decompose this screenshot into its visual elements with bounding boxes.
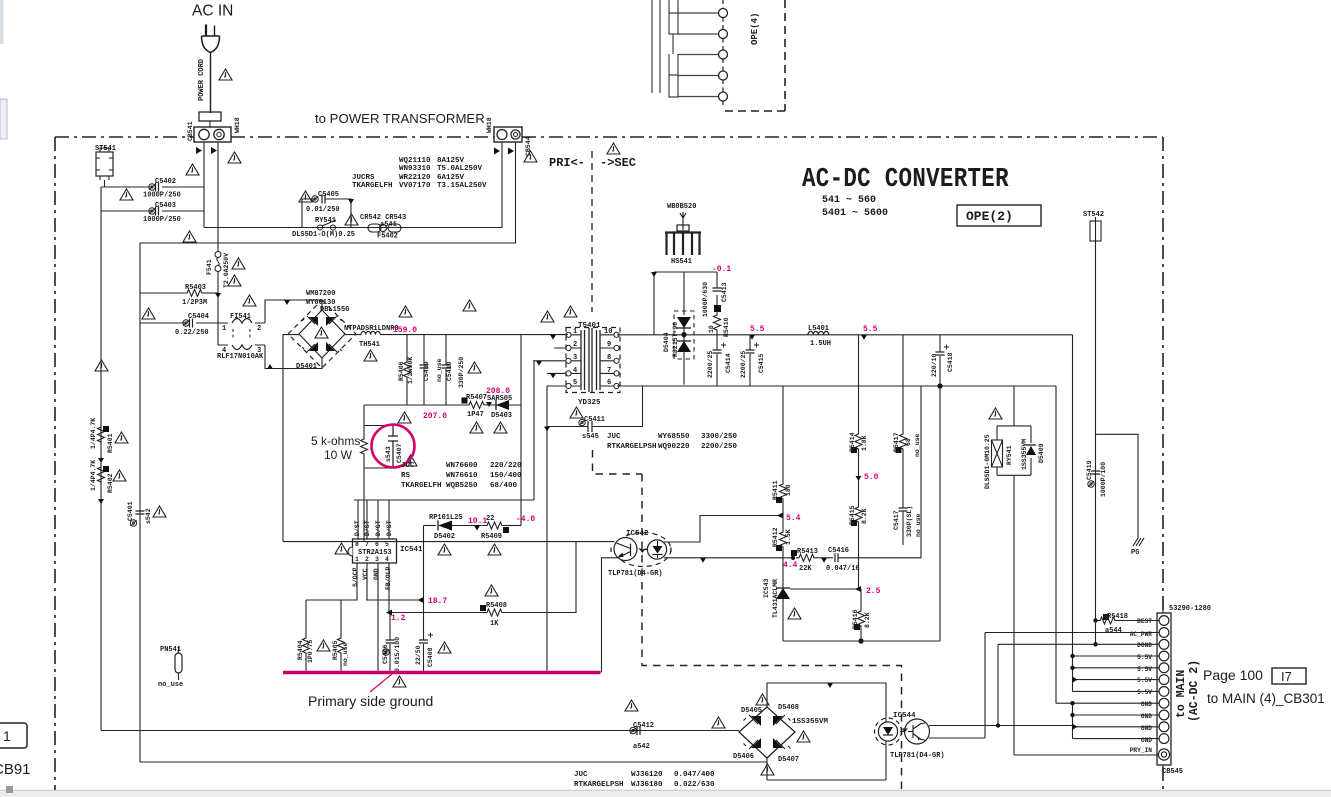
resistor R5412 xyxy=(782,511,784,529)
wire CB541 left pin down xyxy=(203,142,205,228)
fuse table xyxy=(352,157,487,190)
svg-text:1.5K: 1.5K xyxy=(785,529,792,545)
VCC sense line xyxy=(366,599,424,601)
svg-text:C5415: C5415 xyxy=(758,353,765,373)
svg-text:RP101L2S: RP101L2S xyxy=(429,514,463,522)
svg-text:GND: GND xyxy=(1141,701,1152,708)
warning symbol xyxy=(186,164,199,175)
svg-text:no_use: no_use xyxy=(914,433,921,457)
svg-text:68/400: 68/400 xyxy=(490,482,518,490)
svg-text:330P(SL): 330P(SL) xyxy=(906,506,913,537)
svg-text:OPE(2): OPE(2) xyxy=(966,209,1013,224)
svg-text:RTKARGELPSH: RTKARGELPSH xyxy=(574,781,624,789)
svg-text:3: 3 xyxy=(375,556,379,563)
svg-text:R5407: R5407 xyxy=(466,394,487,402)
line filter FI541 xyxy=(218,323,265,345)
svg-text:(AC-DC 2): (AC-DC 2) xyxy=(1188,660,1201,722)
svg-text:R5418: R5418 xyxy=(1107,613,1128,621)
resistor R5414 xyxy=(858,335,860,431)
primary ground bus magenta xyxy=(283,671,601,674)
svg-text:WM87200: WM87200 xyxy=(306,290,335,298)
opto emitter to ground xyxy=(602,558,619,673)
svg-text:D5406: D5406 xyxy=(733,753,754,761)
wire choke to bridge top xyxy=(265,300,322,323)
svg-text:C5414: C5414 xyxy=(725,353,732,373)
svg-text:DLS5D1-O(M)0.25: DLS5D1-O(M)0.25 xyxy=(292,231,355,239)
svg-text:GND: GND xyxy=(373,568,380,580)
startup feed vertical xyxy=(520,335,522,526)
svg-text:3: 3 xyxy=(573,354,577,362)
relay coil RY541 xyxy=(989,408,1002,419)
net PRY_IN xyxy=(1014,754,1159,756)
bleeder resistor 5k xyxy=(363,405,365,436)
svg-text:R5415: R5415 xyxy=(849,505,856,525)
title AC-DC CONVERTER xyxy=(802,166,1009,195)
resistor R5411 xyxy=(782,386,784,481)
svg-text:CB541: CB541 xyxy=(187,121,194,141)
connector CB544 xyxy=(494,127,522,142)
svg-text:C5408: C5408 xyxy=(427,647,434,667)
svg-text:T2.0A250V: T2.0A250V xyxy=(223,253,230,288)
svg-text:5.5V: 5.5V xyxy=(1137,654,1152,661)
svg-text:JUC: JUC xyxy=(607,433,621,441)
svg-text:R5401: R5401 xyxy=(107,433,114,453)
wire choke to bridge bottom xyxy=(265,345,322,369)
svg-text:D5407: D5407 xyxy=(778,756,799,764)
svg-text:R5416: R5416 xyxy=(852,609,859,629)
svg-text:10.1: 10.1 xyxy=(468,517,487,526)
svg-text:8.2K: 8.2K xyxy=(861,508,868,524)
primary pin stubs xyxy=(533,348,566,386)
resistor R5405 xyxy=(340,600,342,635)
svg-text:6A125V: 6A125V xyxy=(437,174,465,182)
inductor L5401 xyxy=(808,331,829,334)
svg-text:R5406: R5406 xyxy=(398,361,405,381)
resistor R5406 xyxy=(406,335,408,359)
svg-text:5.4: 5.4 xyxy=(786,514,801,523)
svg-text:C5404: C5404 xyxy=(188,313,209,321)
svg-text:1000P/250: 1000P/250 xyxy=(143,216,181,224)
svg-text:D5403: D5403 xyxy=(491,412,512,420)
svg-text:no_use: no_use xyxy=(342,642,349,666)
svg-text:no_use: no_use xyxy=(158,681,183,689)
svg-text:CB544: CB544 xyxy=(525,136,532,156)
svg-text:-4.0: -4.0 xyxy=(516,515,535,524)
resistor R5401 xyxy=(98,424,105,445)
svg-text:DGND: DGND xyxy=(1137,642,1152,649)
svg-text:PRY_IN: PRY_IN xyxy=(1130,747,1153,754)
svg-text:R5404: R5404 xyxy=(297,640,304,660)
IC541 pin wires xyxy=(306,563,357,600)
svg-text:5.0: 5.0 xyxy=(864,473,879,482)
svg-text:5.5: 5.5 xyxy=(750,325,765,334)
svg-text:D/ST: D/ST xyxy=(354,520,361,536)
diode D5403 xyxy=(487,404,521,406)
svg-text:R5403: R5403 xyxy=(185,284,206,292)
svg-text:5: 5 xyxy=(573,379,577,387)
svg-text:HS541: HS541 xyxy=(671,258,692,266)
svg-text:AC IN: AC IN xyxy=(192,3,233,20)
svg-text:4: 4 xyxy=(573,367,577,375)
svg-text:R5402: R5402 xyxy=(107,473,114,493)
svg-text:WQB5250: WQB5250 xyxy=(446,482,478,490)
warning symbol xyxy=(219,69,232,80)
svg-text:2200/25: 2200/25 xyxy=(707,351,714,378)
svg-text:1: 1 xyxy=(573,328,577,336)
resistor R5415 xyxy=(855,504,862,525)
capacitor C5406 xyxy=(389,613,391,673)
svg-text:C5406: C5406 xyxy=(382,644,389,664)
parts table (5k) xyxy=(401,462,522,490)
svg-text:R5411: R5411 xyxy=(772,480,779,500)
svg-text:WQ21110: WQ21110 xyxy=(399,157,431,165)
warning symbol xyxy=(524,151,537,162)
svg-text:C5409: C5409 xyxy=(423,361,430,381)
bridge top feed xyxy=(767,683,886,722)
svg-text:1/2P3M: 1/2P3M xyxy=(182,299,207,307)
svg-text:180: 180 xyxy=(785,484,792,496)
svg-text:D5402: D5402 xyxy=(434,533,455,541)
svg-text:DEST: DEST xyxy=(1137,618,1152,625)
svg-text:R5417: R5417 xyxy=(893,432,900,452)
svg-text:WQ90220: WQ90220 xyxy=(658,443,690,451)
svg-text:R5405: R5405 xyxy=(332,640,339,660)
bottom long bus A xyxy=(101,730,739,732)
isolation barrier dashed xyxy=(593,450,902,790)
capacitor C5415 xyxy=(749,335,751,386)
svg-text:s542: s542 xyxy=(145,508,152,524)
resistor R5410 xyxy=(714,312,721,333)
svg-text:2: 2 xyxy=(257,325,261,333)
secondary 5.5V rail xyxy=(617,334,1073,336)
IC U541 STR2A153 xyxy=(353,539,397,563)
svg-text:C5412: C5412 xyxy=(633,722,654,730)
capacitor C5403 xyxy=(101,210,204,212)
svg-text:C5416: C5416 xyxy=(828,547,849,555)
resistor R5417 no_use xyxy=(902,335,904,431)
capacitor C5405 snubber xyxy=(302,199,351,228)
svg-text:4.4: 4.4 xyxy=(783,561,798,570)
svg-text:WN76600: WN76600 xyxy=(446,462,478,470)
svg-text:F5402: F5402 xyxy=(377,233,398,241)
svg-text:150/400: 150/400 xyxy=(490,472,522,480)
warning symbol xyxy=(228,152,241,163)
svg-text:D5401: D5401 xyxy=(296,363,317,371)
svg-text:Primary side ground: Primary side ground xyxy=(308,693,433,709)
capacitor C5413 xyxy=(716,272,718,305)
resistor R5404 xyxy=(305,600,307,635)
svg-text:TLP781(D4-GR): TLP781(D4-GR) xyxy=(890,752,945,760)
svg-text:D/ST: D/ST xyxy=(364,520,371,536)
svg-text:R5414: R5414 xyxy=(849,432,856,452)
opto LED anode line 5.4 xyxy=(664,516,783,543)
svg-text:1.2: 1.2 xyxy=(391,614,406,623)
svg-text:s543: s543 xyxy=(385,446,392,462)
net DGND feed xyxy=(997,644,999,725)
svg-text:to MAIN: to MAIN xyxy=(1175,670,1188,718)
capacitor C5402 xyxy=(101,186,204,188)
svg-text:WR22120: WR22120 xyxy=(399,174,431,182)
resistor R5413 xyxy=(791,556,795,560)
callout line xyxy=(370,674,392,692)
svg-text:D5405: D5405 xyxy=(741,707,762,715)
svg-text:2: 2 xyxy=(573,341,577,349)
svg-text:330P/250: 330P/250 xyxy=(458,357,465,388)
svg-text:T5.0AL250V: T5.0AL250V xyxy=(437,165,483,173)
feedback box verticals xyxy=(939,386,941,641)
bridge rectifier D5405-D5408 xyxy=(739,707,795,758)
svg-text:1SS355VM: 1SS355VM xyxy=(792,718,829,726)
svg-text:159.0: 159.0 xyxy=(393,326,417,335)
svg-text:3300/250: 3300/250 xyxy=(701,433,738,441)
capacitor C5419 xyxy=(1096,434,1139,538)
svg-text:POWER CORD: POWER CORD xyxy=(198,59,206,101)
svg-text:RLF17N010AK: RLF17N010AK xyxy=(217,353,264,361)
svg-text:C5405: C5405 xyxy=(318,191,339,199)
svg-text:WJ36120: WJ36120 xyxy=(631,771,663,779)
svg-text:0.022/630: 0.022/630 xyxy=(674,781,715,789)
svg-text:5.5: 5.5 xyxy=(863,325,878,334)
svg-text:R5408: R5408 xyxy=(486,602,507,610)
svg-text:C5419: C5419 xyxy=(1086,460,1093,480)
svg-text:Page 100: Page 100 xyxy=(1203,667,1263,683)
svg-text:I7: I7 xyxy=(1281,669,1292,684)
svg-text:RS: RS xyxy=(401,472,411,480)
diode D5409 xyxy=(1026,446,1036,455)
svg-text:18.7: 18.7 xyxy=(428,597,447,606)
node 207 line xyxy=(364,404,466,406)
svg-text:1000P/250: 1000P/250 xyxy=(143,192,181,200)
isolation dashed line upper xyxy=(591,151,593,312)
svg-text:a542: a542 xyxy=(633,743,650,751)
svg-text:s545: s545 xyxy=(582,433,599,441)
svg-text:8: 8 xyxy=(607,354,611,362)
pin net names xyxy=(1130,618,1153,754)
svg-text:WH18: WH18 xyxy=(234,117,241,133)
svg-text:1: 1 xyxy=(3,728,11,744)
net DGND xyxy=(1096,621,1159,645)
svg-text:5.5V: 5.5V xyxy=(1137,666,1152,673)
svg-text:JUCRS: JUCRS xyxy=(352,174,375,182)
svg-text:8.2K: 8.2K xyxy=(864,612,871,628)
svg-text:R5413: R5413 xyxy=(797,548,818,556)
svg-text:1: 1 xyxy=(222,325,226,333)
svg-text:DLS5D1-0M10.25: DLS5D1-0M10.25 xyxy=(984,434,991,489)
cord end ferrule xyxy=(199,112,221,121)
svg-text:22/50: 22/50 xyxy=(415,645,422,665)
svg-text:10: 10 xyxy=(708,325,715,333)
svg-text:RY541: RY541 xyxy=(1006,445,1013,465)
svg-text:R5409: R5409 xyxy=(481,533,502,541)
svg-text:2.5: 2.5 xyxy=(866,587,881,596)
svg-text:1K: 1K xyxy=(490,620,499,628)
R5408 line xyxy=(389,612,484,614)
capacitor C5410 xyxy=(445,335,447,405)
svg-text:1000P/100: 1000P/100 xyxy=(1100,462,1107,497)
TL431 ref line 2.5 xyxy=(790,588,861,590)
resistor R5416 xyxy=(860,589,862,608)
svg-text:220/220: 220/220 xyxy=(490,462,522,470)
svg-text:-0.1: -0.1 xyxy=(712,265,731,274)
resistor R5408 xyxy=(484,609,505,616)
resistor R5407 xyxy=(466,402,487,409)
OPE(2) box xyxy=(957,205,1041,226)
svg-text:53290-1280: 53290-1280 xyxy=(1169,605,1211,613)
svg-text:1: 1 xyxy=(355,556,359,563)
feedback bottom rail xyxy=(783,640,940,642)
capacitor C5414 xyxy=(716,335,718,386)
svg-text:2200/25: 2200/25 xyxy=(740,351,747,378)
fuse F541 xyxy=(215,252,221,258)
wire AC line to CB544 xyxy=(140,142,516,243)
svg-text:TKARGELFH: TKARGELFH xyxy=(401,482,442,490)
svg-text:IC541: IC541 xyxy=(400,546,423,554)
page tab box 1 xyxy=(0,723,27,748)
svg-text:F541: F541 xyxy=(206,259,213,275)
net AC_PWR xyxy=(985,632,1159,634)
svg-text:C5413: C5413 xyxy=(721,282,728,302)
bridge bottom return xyxy=(767,741,886,780)
svg-text:7: 7 xyxy=(607,367,611,375)
svg-text:JUC: JUC xyxy=(401,462,415,470)
svg-text:C5418: C5418 xyxy=(947,352,954,372)
svg-text:R5412: R5412 xyxy=(772,527,779,547)
svg-text:JUC: JUC xyxy=(574,771,588,779)
svg-text:22: 22 xyxy=(486,515,494,523)
main enclosure dash-dot border xyxy=(55,137,1163,790)
collector feedback line xyxy=(283,541,615,543)
svg-text:D5409: D5409 xyxy=(1038,443,1045,463)
svg-text:D/ST: D/ST xyxy=(386,520,393,536)
resistor R5418 a544 xyxy=(1093,618,1097,622)
svg-text:IC544: IC544 xyxy=(893,712,916,720)
chassis ground PG xyxy=(1133,538,1144,546)
svg-text:C5402: C5402 xyxy=(155,178,176,186)
svg-text:L5401: L5401 xyxy=(808,325,829,333)
pin5 return to primary ground xyxy=(546,386,548,673)
svg-text:C5410: C5410 xyxy=(446,361,453,381)
IC541 pin bus xyxy=(354,499,534,501)
svg-text:->SEC: ->SEC xyxy=(600,156,636,170)
svg-text:VV07170: VV07170 xyxy=(399,182,431,190)
svg-text:541 ∼ 560: 541 ∼ 560 xyxy=(822,195,876,206)
svg-text:1/4P4.7K: 1/4P4.7K xyxy=(90,418,97,449)
shunt reg IC543 TL431 xyxy=(782,586,784,588)
svg-text:WJ36180: WJ36180 xyxy=(631,781,663,789)
svg-text:TLP781(D4-GR): TLP781(D4-GR) xyxy=(608,570,663,578)
nets 5.5V xyxy=(1073,656,1159,691)
svg-text:220/10: 220/10 xyxy=(931,353,938,377)
capacitor C5407 s543 xyxy=(388,426,398,469)
svg-text:S/OCP: S/OCP xyxy=(352,567,359,587)
svg-text:1/2W50K: 1/2W50K xyxy=(407,357,414,384)
svg-text:to MAIN (4)_CB301: to MAIN (4)_CB301 xyxy=(1207,691,1325,706)
wire CB541 right pin down to fuse xyxy=(217,142,219,251)
resistor R5409 xyxy=(484,522,505,529)
opto outputs xyxy=(929,725,1073,727)
opto LED cathode 4.4 line xyxy=(664,557,793,559)
svg-text:1P0.75: 1P0.75 xyxy=(307,639,314,663)
svg-text:1/4P4.7K: 1/4P4.7K xyxy=(90,460,97,491)
resistor R5403 xyxy=(140,292,184,294)
svg-text:C5417: C5417 xyxy=(893,510,900,530)
nets GND xyxy=(1056,702,1159,704)
svg-text:1.8K: 1.8K xyxy=(861,435,868,451)
svg-text:OPE(4): OPE(4) xyxy=(750,13,760,45)
svg-text:1.5UH: 1.5UH xyxy=(810,340,831,348)
capacitor C5404 xyxy=(140,322,218,324)
svg-text:to POWER TRANSFORMER: to POWER TRANSFORMER xyxy=(315,111,485,126)
transformer windings/core xyxy=(581,328,600,392)
svg-text:5.5V: 5.5V xyxy=(1137,677,1152,684)
svg-text:D/ST: D/ST xyxy=(375,520,382,536)
highlight circle magenta xyxy=(372,425,415,468)
junction arrows under CB541 xyxy=(196,147,217,154)
svg-text:STR2A153: STR2A153 xyxy=(358,549,392,557)
svg-text:0.047/400: 0.047/400 xyxy=(674,771,715,779)
bottom long bus B xyxy=(140,761,767,763)
svg-text:PRI<-: PRI<- xyxy=(549,156,585,170)
svg-text:5.5V: 5.5V xyxy=(1137,689,1152,696)
wire AC neutral to CB544 xyxy=(204,142,502,228)
svg-text:PG: PG xyxy=(1131,549,1139,557)
svg-text:4: 4 xyxy=(385,556,389,563)
svg-text:1000P/630: 1000P/630 xyxy=(702,282,709,317)
ref box I7 xyxy=(1272,668,1306,684)
svg-text:C5403: C5403 xyxy=(155,202,176,210)
svg-text:C5411: C5411 xyxy=(584,416,605,424)
svg-text:C5401: C5401 xyxy=(127,501,134,521)
svg-text:8A125V: 8A125V xyxy=(437,157,465,165)
svg-text:WB0B520: WB0B520 xyxy=(667,203,696,211)
AC plug xyxy=(202,25,220,53)
bleeder feed from bridge xyxy=(283,335,299,542)
capacitor C5401 xyxy=(130,520,136,526)
svg-text:no_use: no_use xyxy=(436,358,443,382)
secondary return rail xyxy=(617,385,1056,387)
bottom parts table xyxy=(574,771,715,789)
svg-text:GND: GND xyxy=(1141,725,1152,732)
connector CB541 xyxy=(194,127,231,142)
capacitor C5418 xyxy=(939,335,941,386)
svg-text:a544: a544 xyxy=(1105,627,1122,635)
svg-text:TL431ACLMR: TL431ACLMR xyxy=(772,579,779,618)
OPE(4) corner assembly top right xyxy=(652,0,719,97)
svg-text:WN76610: WN76610 xyxy=(446,472,478,480)
wire left bus down xyxy=(100,187,102,731)
svg-text:5 k-ohms: 5 k-ohms xyxy=(311,434,360,448)
svg-text:2200/250: 2200/250 xyxy=(701,443,738,451)
svg-text:CB545: CB545 xyxy=(1162,768,1183,776)
svg-text:TKARGELFH: TKARGELFH xyxy=(352,182,393,190)
capacitor C5408 xyxy=(423,600,425,673)
svg-text:VCC: VCC xyxy=(362,568,369,580)
svg-text:GND: GND xyxy=(1141,713,1152,720)
secondary top rail xyxy=(654,272,717,335)
capacitor C5416 xyxy=(835,553,838,562)
svg-text:D5408: D5408 xyxy=(778,704,799,712)
power cord wire xyxy=(210,53,212,114)
main rectified rail xyxy=(394,334,568,336)
svg-text:SARS05: SARS05 xyxy=(487,395,512,403)
svg-text:10 W: 10 W xyxy=(324,448,353,462)
svg-text:WY68550: WY68550 xyxy=(658,433,690,441)
svg-text:IC543: IC543 xyxy=(763,578,770,598)
svg-text:RTKARGELPSH: RTKARGELPSH xyxy=(607,443,657,451)
svg-text:WH18: WH18 xyxy=(486,117,493,133)
svg-text:0.22/250: 0.22/250 xyxy=(175,329,209,337)
svg-text:TH541: TH541 xyxy=(359,341,380,349)
